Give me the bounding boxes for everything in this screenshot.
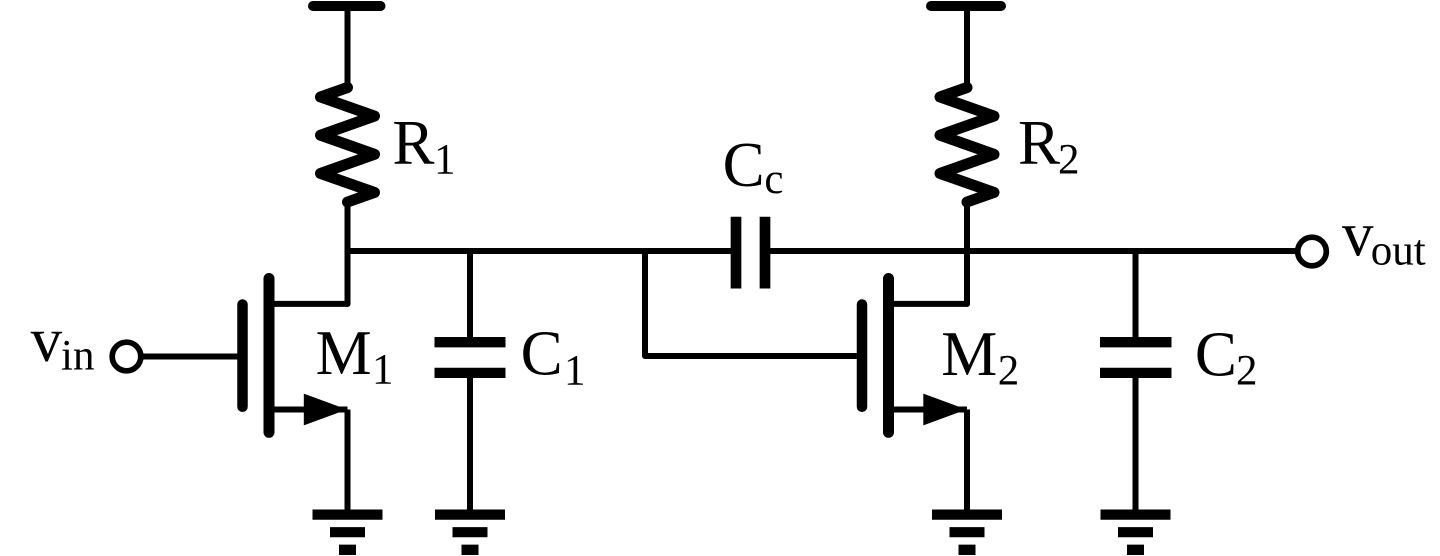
ground (M1 source) [313, 515, 383, 550]
svg-text:v: v [1342, 200, 1374, 270]
capacitor C1 [435, 249, 506, 514]
ground (C2) [1101, 515, 1171, 550]
M2 source arrow [923, 394, 966, 426]
wire: C2 bottom plate to ground [1133, 375, 1139, 513]
ground (C1) [435, 515, 505, 550]
transistor M1 (NMOS) [243, 279, 348, 515]
svg-text:M: M [941, 319, 997, 389]
C2 top plate [1100, 337, 1172, 347]
output terminal vout (open circle) [1298, 237, 1327, 266]
wire: VDD to R2 top [964, 6, 970, 92]
svg-text:out: out [1371, 228, 1426, 275]
wire: node A down and over to M2 gate [645, 251, 857, 356]
label R2 [1018, 108, 1080, 184]
svg-text:v: v [31, 305, 63, 375]
wire: node B horizontal (Cc right plate to vout terminal) [765, 248, 1296, 254]
label R1 [392, 108, 455, 184]
svg-text:C: C [1195, 319, 1237, 389]
label Cc [723, 130, 784, 203]
transistor M2 (NMOS) [862, 279, 967, 515]
wire: M1 source down to ground [345, 410, 351, 515]
svg-text:2: 2 [1236, 348, 1258, 395]
VDD supply rail symbol (left) [313, 1, 381, 11]
resistor R2 [940, 88, 994, 203]
capacitor Cc (coupling, in series between node A and output node) [736, 217, 765, 289]
resistor R1 [321, 88, 375, 203]
wire: C1 bottom plate to ground [467, 375, 473, 513]
M2 source lead [892, 407, 968, 413]
capacitor C2 [1100, 249, 1172, 514]
svg-text:2: 2 [998, 348, 1020, 395]
wire: node B down to C2 top plate [1133, 249, 1139, 341]
C1 bottom plate [435, 368, 506, 378]
wire: M2 source down to ground [964, 410, 970, 515]
wire: vin terminal to M1 gate [141, 354, 239, 360]
M1 source arrow [304, 394, 347, 426]
svg-text:C: C [723, 130, 765, 200]
input terminal vin (open circle) [112, 342, 141, 371]
Cc right plate [760, 217, 771, 289]
C1 top plate [435, 337, 506, 347]
svg-text:1: 1 [372, 347, 394, 394]
M2 drain lead [892, 301, 968, 307]
svg-text:1: 1 [434, 137, 456, 184]
wire: node A horizontal (M1 drain to Cc left plate) [348, 248, 737, 254]
M2 gate bar [857, 305, 868, 407]
ground (M2 source) [932, 515, 1002, 550]
svg-text:M: M [316, 318, 372, 388]
label C1 [521, 319, 586, 395]
M1 drain lead [272, 301, 348, 307]
VDD supply rail symbol (right) [931, 1, 1001, 11]
M1 source lead [272, 407, 348, 413]
label vin [31, 305, 95, 380]
svg-text:in: in [61, 333, 94, 380]
label M2 [941, 319, 1019, 395]
svg-text:R: R [1018, 108, 1060, 178]
wire: R2 bottom to M2 drain (through node B) [964, 200, 970, 304]
svg-text:C: C [521, 319, 563, 389]
label vout [1342, 200, 1426, 275]
svg-text:c: c [764, 156, 783, 203]
C2 bottom plate [1100, 368, 1172, 378]
svg-text:R: R [392, 108, 434, 178]
M1 channel bar [264, 279, 275, 433]
wire: VDD to R1 top [345, 6, 351, 92]
svg-text:1: 1 [564, 348, 586, 395]
label C2 [1195, 319, 1258, 394]
Cc left plate [731, 217, 742, 289]
svg-text:2: 2 [1058, 137, 1080, 184]
wire: R1 bottom to M1 drain (through node A) [345, 200, 351, 304]
M1 gate bar [237, 305, 248, 407]
wire: node A down to C1 top plate [467, 249, 473, 341]
label M1 [316, 318, 394, 394]
M2 channel bar [883, 279, 894, 433]
